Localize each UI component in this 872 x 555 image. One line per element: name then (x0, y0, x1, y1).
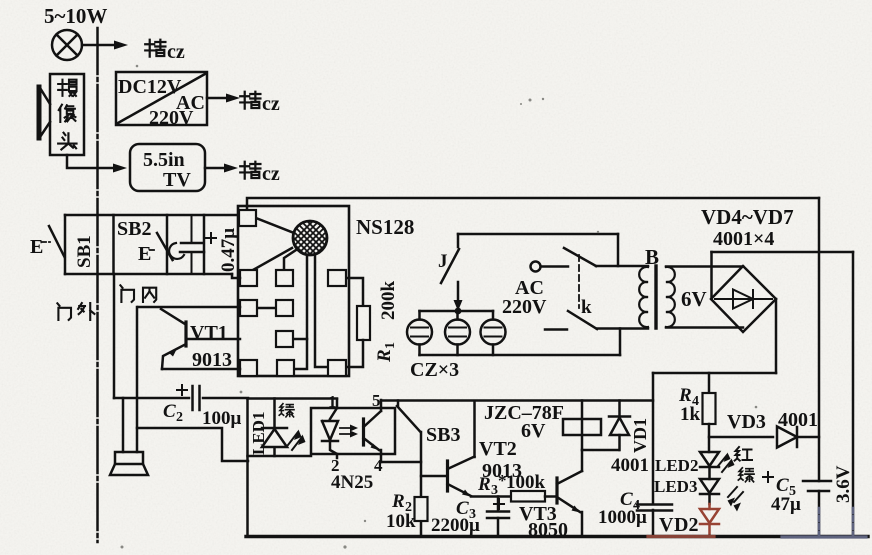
LED LED3 (green indicator) (700, 479, 719, 504)
pad P5 (276, 270, 293, 286)
wire R4 bottom to VD3 row (708, 424, 711, 452)
wire bridge plus output down (775, 299, 778, 373)
wire 门内 branch down x114 (113, 274, 116, 398)
transformer B secondary winding (666, 267, 675, 327)
switch SB1 (door button outside) (30, 226, 65, 258)
label R1 (rotated) (374, 342, 398, 363)
pin 1 of 4N25 (336, 399, 339, 408)
wire top supply rail y198 (247, 198, 819, 209)
plus polarity of C2 (177, 385, 187, 395)
AC source terminal circle (531, 262, 541, 272)
pad P2 (240, 270, 257, 286)
label 插cz (top socket) (145, 40, 185, 63)
wire VT2 base lead (421, 475, 446, 478)
wire VT3 emitter to ground rail (581, 512, 584, 536)
speaker BL (110, 452, 148, 475)
relay contact k lower (545, 311, 597, 330)
pad P9 (328, 270, 346, 286)
wire SB row bottom rail (65, 273, 232, 276)
wire from bottom rail to chip P2 (232, 274, 240, 278)
pad P10 (328, 360, 346, 376)
wire VD3 row y437 (709, 436, 819, 439)
wire R4 feed stub (708, 373, 711, 393)
relay coil K box (563, 419, 601, 435)
wire P2 to mic (253, 248, 292, 270)
emission arrows of LED1 (288, 430, 306, 451)
camera 摄像头 box (50, 74, 84, 155)
wire AC loop top edge (458, 233, 618, 236)
pin 5 of 4N25 (380, 400, 383, 408)
wire P3 to P6 (257, 307, 276, 310)
plus polarity of C3 (494, 499, 504, 509)
arrowhead to 插cz (bottom) (224, 164, 238, 173)
diode VD2 (dark red, voltage drop) (700, 504, 719, 536)
capacitor C2 (electrolytic) (193, 386, 200, 410)
wire camera to TV monitor (67, 155, 113, 168)
hybrid module NS128 outline (238, 206, 349, 376)
wire SB row left end (64, 215, 67, 274)
bridge rectifier VD4-VD7 diamond (711, 266, 776, 332)
wire P7 stub (293, 338, 307, 341)
wire SB3/R2 column x421 (420, 432, 423, 536)
diode symbol inside bridge (715, 290, 772, 309)
transformer B core (654, 266, 657, 328)
switch J (main) (441, 234, 463, 311)
value label *100k (R3) (498, 471, 546, 493)
diode VD1 (flyback) (609, 401, 630, 451)
wire primary bottom to AC loop (619, 329, 622, 356)
lamp EL door light (52, 30, 82, 60)
capacitor C3 (electrolytic) (487, 497, 509, 537)
wire VT2 emitter to R3 (471, 495, 511, 498)
label 红 red (LED2) (735, 447, 752, 461)
wire LED1 box left edge down to ground rail (246, 399, 249, 537)
wire CZ top bus (420, 310, 494, 313)
wire secondary top to bridge (666, 265, 743, 268)
wire VT3 collector up to relay (581, 450, 584, 471)
pad P7 (276, 331, 293, 347)
plus polarity of C5 (763, 472, 773, 482)
wire rung at x204 (203, 215, 206, 274)
LED LED1 (green indicator) (262, 399, 287, 457)
wire P9 to R1 (346, 278, 363, 306)
ground rail red tinted segment (648, 535, 714, 538)
label R4 (678, 385, 699, 409)
wire pin4 to R2 column (381, 461, 421, 464)
wire pin5 rail to relay section y400 (381, 399, 653, 402)
wire +6V column x653 with C4 (652, 373, 655, 536)
wire rung at x113 (112, 215, 115, 274)
label C5 (776, 475, 796, 499)
wire battery column x853 (852, 252, 855, 537)
wire P1 to mic (256, 218, 294, 233)
pin 2 of 4N25 (336, 454, 339, 458)
wire mic down bus 1 (294, 255, 307, 369)
mechanical link of k (dashed) (578, 255, 580, 308)
capacitor 0.47u coupling (180, 215, 204, 274)
relay coil K wire (581, 401, 584, 451)
label C4 (620, 489, 640, 513)
junction dot CZ feed (455, 308, 462, 315)
wire SB row top rail (65, 214, 238, 217)
wire LED1 box bottom edge (248, 455, 312, 458)
wall boundary dash-dot line 门外/门内 (96, 28, 99, 542)
wire VT1 collector feed y307 (138, 306, 240, 309)
label C3 (456, 498, 476, 522)
blue tint column stubs (819, 508, 853, 535)
wire speaker terminal left (122, 398, 125, 452)
ground rail blue tinted segment (782, 535, 866, 538)
wire AC terminal to contact k (541, 265, 568, 268)
resistor R2 (415, 497, 428, 521)
wire R1 to P10 (346, 340, 363, 367)
label 绿 green (LED3) (738, 468, 754, 482)
plus polarity of 0.47u (206, 233, 216, 243)
pad P3 (240, 300, 257, 316)
ground rail bottom y536.5 (246, 535, 868, 538)
socket CZ1 (407, 311, 432, 355)
wire speaker row to LED1 branch (137, 428, 248, 461)
emission arrows of LED2 (718, 453, 735, 473)
label R2 (391, 491, 412, 515)
switch SB2 (door button inside) (138, 233, 184, 265)
wire adapter to plug arrow (207, 97, 226, 100)
wire TV to plug arrow (205, 167, 224, 170)
wire mic down bus 2 (315, 255, 328, 367)
label 门内 inside door (120, 285, 156, 302)
LED LED2 (red indicator) (700, 452, 719, 479)
pin 4 of 4N25 (380, 454, 383, 462)
arrowhead to 插cz (middle) (226, 94, 240, 103)
wire AC top edge corner down (617, 234, 620, 266)
wire VT2 collector to relay rail (473, 401, 476, 457)
microphone MIC (crosshatched) (258, 220, 362, 266)
pad P1 (239, 210, 256, 226)
wire secondary bottom to bridge (666, 326, 743, 329)
switch SB3 (397, 401, 421, 433)
wire bridge minus output up to top-right rail (710, 252, 713, 299)
transistor VT2 (448, 457, 475, 497)
resistor R4 (703, 393, 716, 424)
label VD2 (659, 514, 698, 536)
wire coil bottom node y450 (582, 449, 619, 452)
light arrows inside 4N25 (340, 425, 358, 438)
arrowhead into TV box (113, 164, 127, 173)
optocoupler 4N25 outline (311, 408, 395, 454)
wire k upper output to transformer (596, 265, 648, 268)
label R3 (477, 474, 498, 498)
capacitor C5 (electrolytic) (803, 481, 831, 491)
wire rail y252 to battery column (712, 251, 854, 254)
label 绿 green (LED1) (279, 404, 294, 417)
transistor VT1 (161, 309, 186, 369)
label 门外 outside door (57, 303, 94, 320)
pad P6 (276, 300, 293, 316)
wire k lower to transformer primary bottom (597, 327, 648, 330)
power adapter box DC12V/AC220V (116, 72, 207, 129)
resistor R3 (511, 491, 545, 502)
resistor R1 (357, 306, 370, 340)
wire LED1 box top edge to opto pin1 (248, 397, 338, 400)
wire VT1 emitter to chip P4 (162, 368, 240, 371)
camera lens horn symbol (39, 87, 50, 138)
phototransistor inside 4N25 (364, 408, 382, 454)
arrowhead to 插cz (top) (114, 41, 128, 50)
wire C5 column x819 (818, 198, 821, 536)
diode VD3 (777, 427, 797, 448)
label AC 220V (502, 277, 547, 318)
label 插cz (middle socket) (240, 92, 280, 115)
relay contact k upper (564, 248, 596, 266)
pad P8 (277, 360, 294, 376)
wire VT1 base to chip P7 (186, 338, 240, 341)
wire x137 down to speaker (136, 307, 139, 452)
LED inside 4N25 (322, 408, 338, 454)
wire R3 to VT3 base (545, 495, 556, 498)
wire AC loop bottom edge (420, 354, 621, 357)
wire +6V rail y373 (653, 372, 776, 375)
TV monitor box 5.5in TV (130, 144, 205, 191)
socket CZ3 (481, 311, 506, 355)
label C2 (163, 401, 183, 425)
emission arrows of LED3 (728, 487, 744, 512)
capacitor C4 (electrolytic filter) (637, 505, 672, 511)
label 插cz (bottom socket) (240, 162, 280, 185)
wire rung at x167 (166, 215, 169, 274)
scan speckles (121, 65, 758, 549)
socket CZ2 (445, 314, 470, 355)
wire P5 to mic (284, 250, 296, 269)
transformer B primary winding (639, 267, 648, 327)
wire C2 row y398 (114, 397, 248, 400)
wire lamp to plug arrow (82, 44, 114, 47)
transistor VT3 (557, 471, 582, 513)
pad P4 (240, 360, 257, 376)
